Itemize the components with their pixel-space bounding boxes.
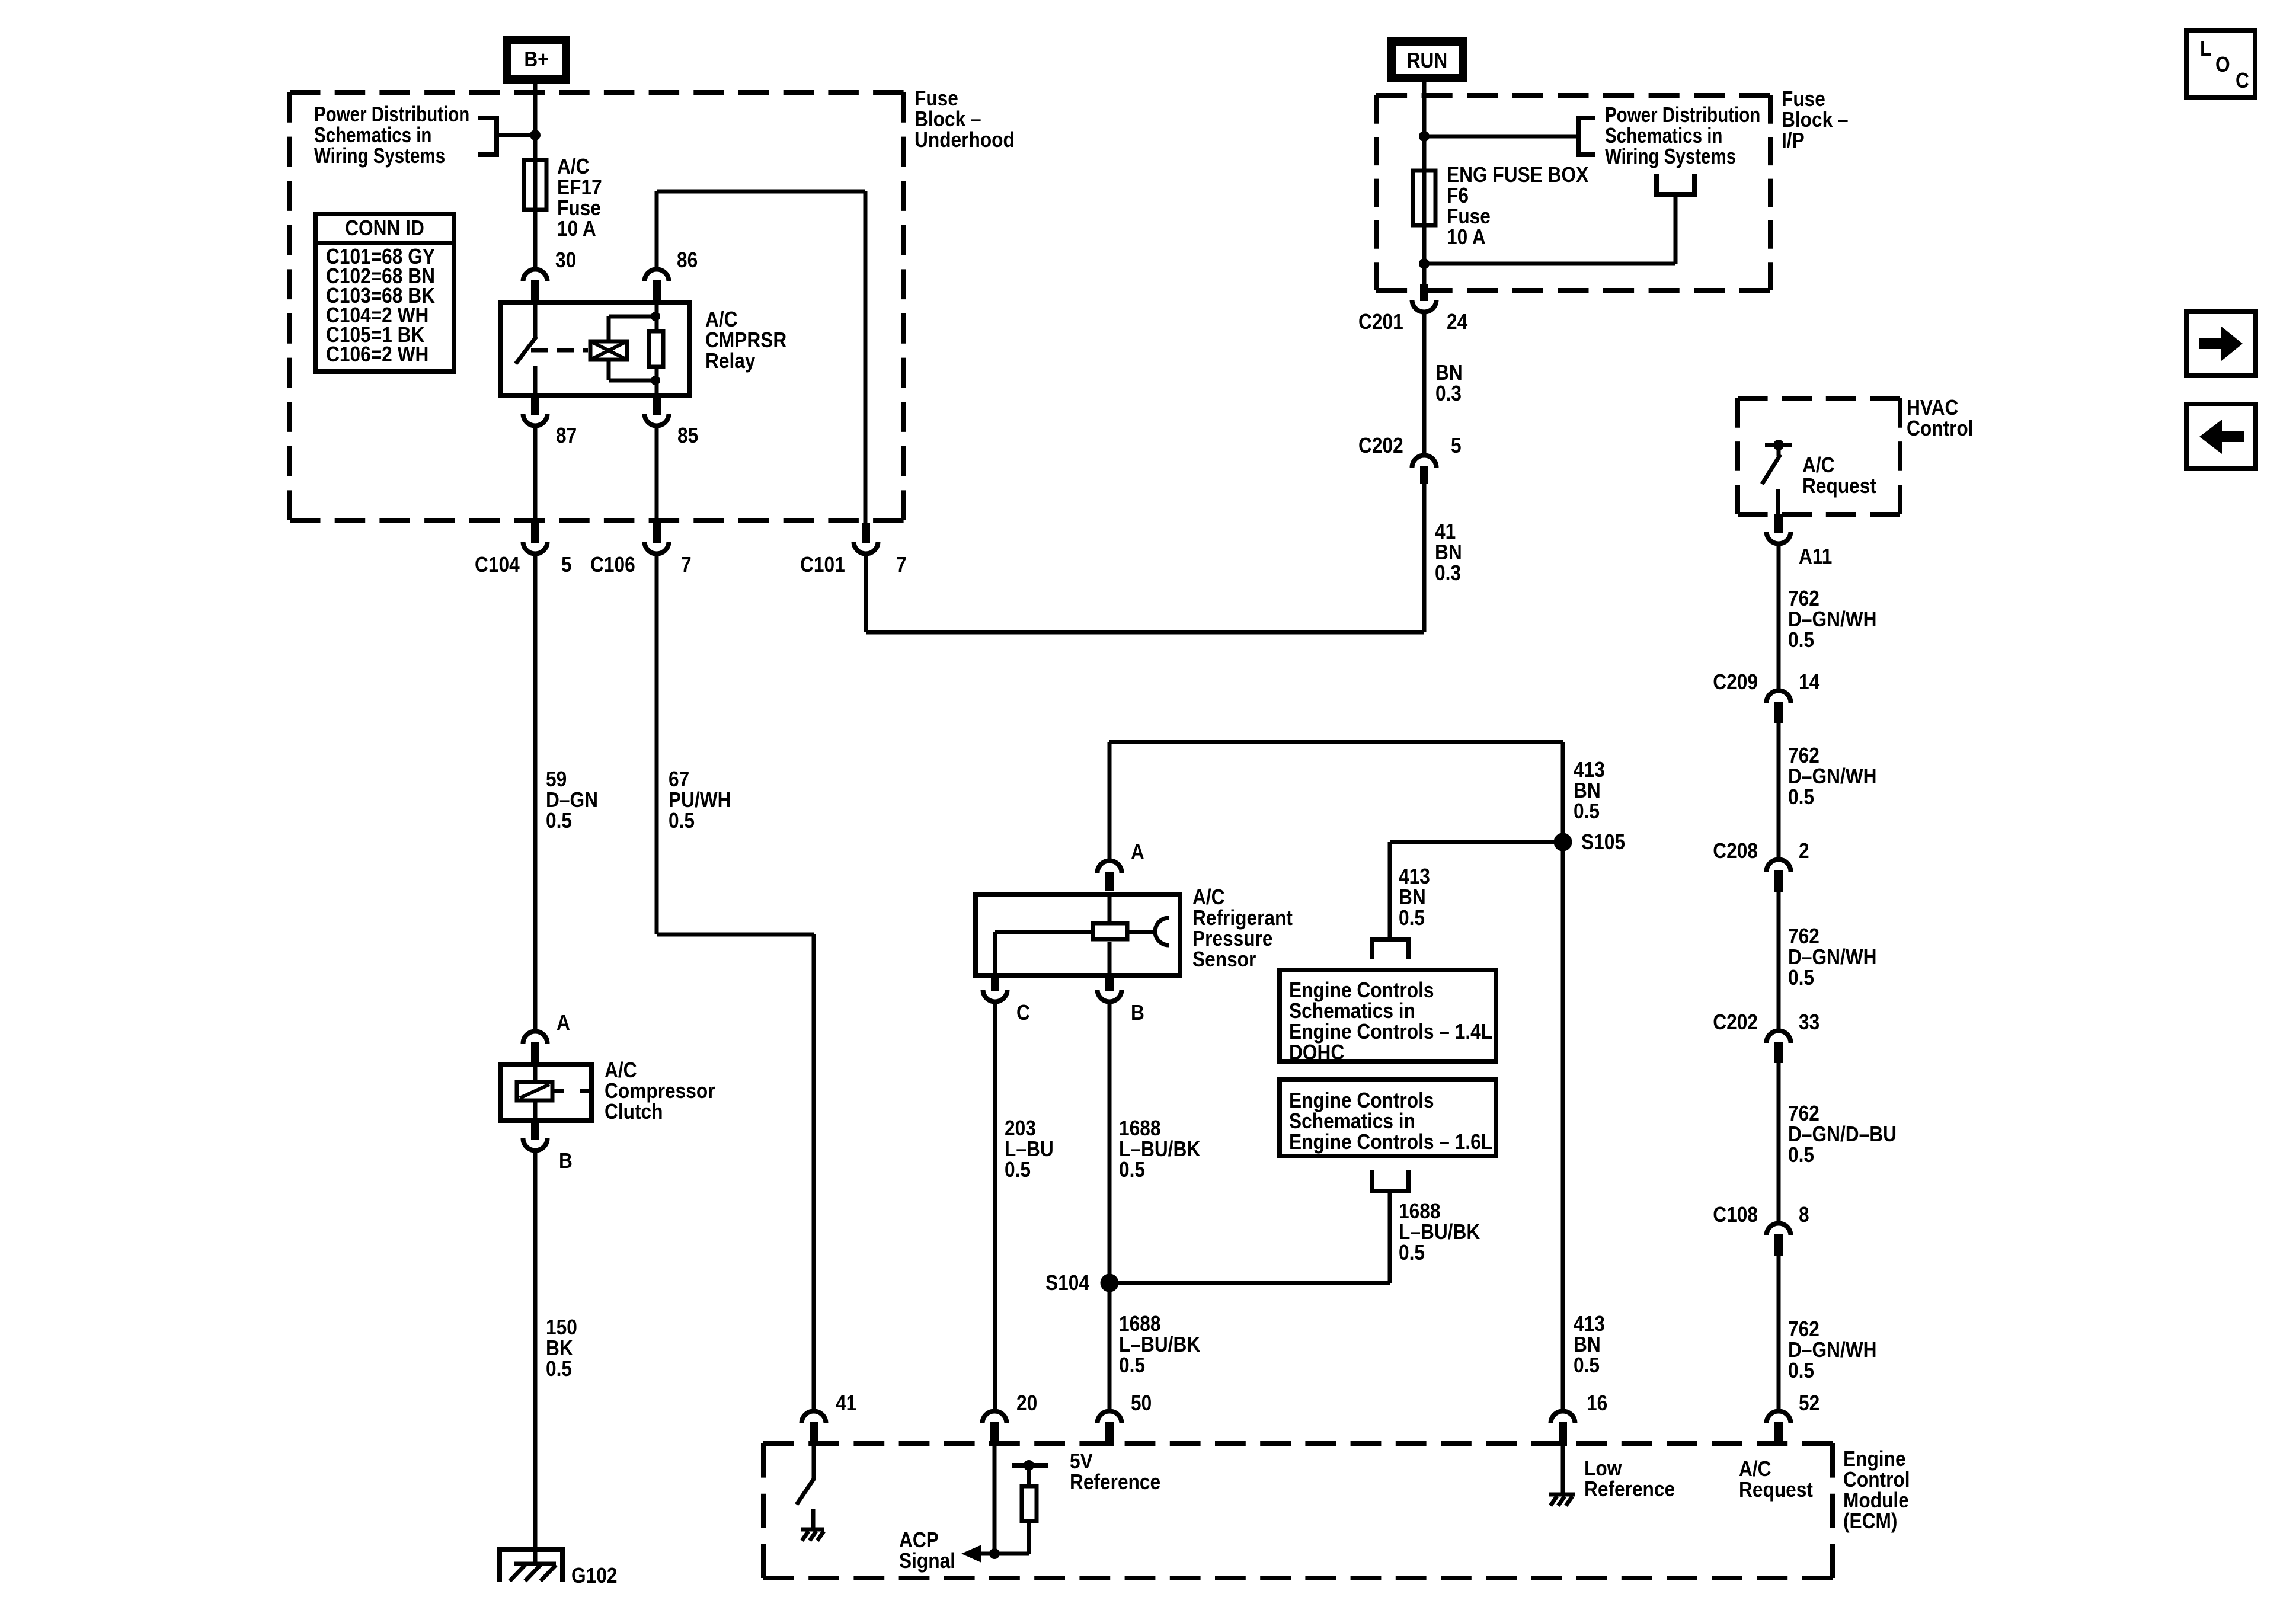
- connector C209 pin 14: [1767, 691, 1791, 724]
- label A/C Request (HVAC): [1802, 453, 1876, 498]
- label C104 5: [475, 553, 572, 577]
- value label 1688 L-BU/BK 0.5 (lower): [1119, 1312, 1201, 1377]
- svg-text:I/P: I/P: [1782, 129, 1805, 152]
- label Power Distribution Schematics in Wiring Systems (left): [314, 102, 469, 167]
- svg-text:20: 20: [1016, 1391, 1037, 1415]
- svg-text:85: 85: [677, 424, 698, 447]
- connector ECM pin 16: [1551, 1411, 1575, 1446]
- splice S105: [1554, 833, 1572, 852]
- svg-text:C208: C208: [1713, 839, 1758, 863]
- svg-text:0.5: 0.5: [546, 1357, 572, 1381]
- node coil top junction: [651, 312, 660, 321]
- connector C108 pin 8: [1767, 1224, 1791, 1256]
- svg-text:41: 41: [836, 1391, 856, 1415]
- label Fuse Block - Underhood: [914, 87, 1015, 152]
- svg-text:C106=2 WH: C106=2 WH: [326, 343, 428, 366]
- ECM pull-up resistor: [994, 1465, 1037, 1554]
- ground G102: [500, 1550, 562, 1582]
- svg-text:2: 2: [1799, 839, 1809, 863]
- box Engine Controls Schematics 1.4L DOHC: [1280, 970, 1496, 1064]
- connector C104 pin 5: [523, 523, 548, 554]
- label C201 24: [1358, 310, 1467, 334]
- wire 1688 L-BU/BK sensor B to ECM pin 50: [1108, 1004, 1112, 1410]
- svg-text:14: 14: [1799, 670, 1819, 694]
- wire pin 87 to C104: [533, 428, 538, 523]
- svg-text:0.5: 0.5: [1788, 966, 1814, 990]
- connector sensor pin B: [1098, 974, 1122, 1001]
- label A/C CMPRSR Relay: [705, 308, 786, 373]
- relay coil symbol: [590, 341, 627, 360]
- connector pin 85: [645, 395, 669, 425]
- svg-text:5: 5: [561, 553, 572, 577]
- svg-text:C101: C101: [800, 553, 845, 577]
- svg-text:0.5: 0.5: [1788, 1143, 1814, 1167]
- node junction on B+ wire: [530, 130, 541, 140]
- svg-text:L: L: [2200, 37, 2211, 60]
- svg-text:G102: G102: [571, 1564, 617, 1587]
- wire pin 85 to C106: [655, 428, 659, 523]
- wire RUN to F6 fuse: [1422, 82, 1427, 286]
- svg-text:CONN ID: CONN ID: [345, 216, 424, 240]
- connector ECM pin 50: [1098, 1411, 1122, 1446]
- node coil bottom junction: [651, 376, 660, 385]
- svg-text:A: A: [557, 1011, 570, 1035]
- ECM internal switch at pin 41: [797, 1446, 814, 1528]
- label ENG FUSE BOX F6 Fuse 10 A: [1447, 163, 1589, 249]
- svg-text:S104: S104: [1045, 1271, 1089, 1295]
- wire BN 0.3: [1422, 314, 1427, 453]
- label Engine Control Module (ECM): [1843, 1447, 1910, 1533]
- wire 762 D-GN/WH C108 to ECM pin 52: [1777, 1256, 1781, 1410]
- bracket from Engine Controls 1.6L box: [1372, 1170, 1408, 1191]
- connector pin 30: [523, 269, 548, 300]
- switch A/C Request: [1762, 440, 1792, 514]
- wire 762 D-GN/WH A11 to C209: [1777, 546, 1781, 689]
- value label 150 BK 0.5: [546, 1315, 577, 1381]
- label C202 5: [1358, 434, 1462, 457]
- wire 150 BK to G102: [533, 1153, 538, 1564]
- connector sensor pin A: [1098, 860, 1122, 891]
- svg-text:5: 5: [1451, 434, 1462, 457]
- svg-text:C201: C201: [1358, 310, 1403, 334]
- bracket Power Distribution reference (right): [1578, 118, 1595, 155]
- svg-text:Relay: Relay: [705, 349, 756, 373]
- value label 59 D-GN 0.5: [546, 767, 598, 833]
- wire to Power Distribution bracket (right): [1424, 135, 1576, 139]
- label C106 7: [590, 553, 692, 577]
- svg-text:7: 7: [896, 553, 907, 577]
- wire through relay resistor: [655, 303, 659, 396]
- wire bracket to fuse output: [1424, 194, 1675, 264]
- svg-text:8: 8: [1799, 1203, 1809, 1227]
- svg-text:0.5: 0.5: [546, 809, 572, 833]
- svg-text:Wiring Systems: Wiring Systems: [314, 143, 445, 167]
- bracket to Engine Controls 1.4L box: [1372, 939, 1408, 959]
- bracket under Power Distribution (right): [1657, 174, 1694, 194]
- dashed box Fuse Block - Underhood: [290, 92, 904, 520]
- connector C101 pin 7: [854, 523, 878, 554]
- svg-text:0.5: 0.5: [1788, 785, 1814, 809]
- wire 59 D-GN to compressor clutch A: [533, 556, 538, 1029]
- svg-text:Engine Controls – 1.6L: Engine Controls – 1.6L: [1289, 1130, 1492, 1154]
- wire sensor A to S105 top run: [1109, 742, 1563, 1410]
- wire 762 D-GN/D-BU C202 to C108: [1777, 1063, 1781, 1221]
- clutch coil: [517, 1064, 589, 1121]
- svg-text:(ECM): (ECM): [1843, 1509, 1897, 1533]
- svg-text:B+: B+: [524, 47, 548, 71]
- svg-text:C: C: [1016, 1001, 1030, 1025]
- value label 67 PU/WH 0.5: [669, 767, 731, 833]
- svg-text:30: 30: [555, 248, 576, 272]
- connector C202 pin 33: [1767, 1030, 1791, 1063]
- value label 41 BN 0.3: [1435, 520, 1462, 585]
- value label 203 L-BU 0.5: [1005, 1116, 1054, 1182]
- wire C101 to RUN feed horizontal: [866, 483, 1424, 632]
- svg-text:0.5: 0.5: [669, 809, 695, 833]
- svg-text:52: 52: [1799, 1391, 1819, 1415]
- 5V reference bus: [1012, 1463, 1048, 1468]
- value label 413 BN 0.5 (lower): [1574, 1312, 1605, 1377]
- node 5V junction: [1024, 1460, 1034, 1471]
- power symbol B+: [507, 40, 566, 79]
- svg-text:Wiring Systems: Wiring Systems: [1605, 144, 1736, 168]
- label HVAC Control: [1907, 396, 1974, 440]
- svg-text:0.5: 0.5: [1119, 1353, 1145, 1377]
- node junction RUN wire: [1419, 131, 1430, 142]
- label Low Reference: [1584, 1457, 1675, 1501]
- fuse EF17: [524, 160, 546, 210]
- label C202 33: [1713, 1010, 1819, 1034]
- wire coil bottom to resistor branch: [609, 360, 655, 380]
- connector C202 pin 5: [1412, 456, 1437, 485]
- connector clutch pin B: [523, 1123, 548, 1150]
- dashed box HVAC Control: [1738, 398, 1900, 514]
- svg-text:50: 50: [1131, 1391, 1152, 1415]
- svg-text:86: 86: [677, 248, 698, 272]
- CONN ID table: [315, 214, 454, 372]
- label C208 2: [1713, 839, 1809, 863]
- svg-text:Reference: Reference: [1070, 1470, 1160, 1494]
- ground internal (pin 41): [801, 1529, 824, 1541]
- svg-text:Request: Request: [1739, 1478, 1813, 1502]
- svg-text:24: 24: [1447, 310, 1467, 334]
- nav box arrow left: [2186, 404, 2256, 469]
- svg-text:O: O: [2215, 53, 2230, 76]
- svg-text:0.5: 0.5: [1574, 799, 1600, 823]
- label 5V Reference: [1070, 1449, 1160, 1494]
- value label 762 D-GN/WH 0.5 (2): [1788, 744, 1877, 809]
- svg-text:0.3: 0.3: [1435, 561, 1461, 585]
- svg-text:C108: C108: [1713, 1203, 1758, 1227]
- fuse F6: [1413, 171, 1435, 225]
- svg-text:C106: C106: [590, 553, 635, 577]
- svg-text:Underhood: Underhood: [914, 128, 1015, 152]
- legend box LOC: [2186, 31, 2255, 98]
- svg-text:16: 16: [1587, 1391, 1607, 1415]
- arrow ACP Signal: [961, 1545, 994, 1563]
- A/C Refrigerant Pressure Sensor box: [976, 894, 1180, 975]
- wire coil top to resistor branch: [609, 316, 655, 341]
- connector sensor pin C: [983, 974, 1007, 1001]
- label C108 8: [1713, 1203, 1809, 1227]
- label Power Distribution Schematics in Wiring Systems (right): [1605, 103, 1760, 168]
- wire 203 L-BU to ECM pin 20: [993, 1004, 997, 1410]
- svg-text:0.5: 0.5: [1119, 1158, 1145, 1182]
- svg-text:Sensor: Sensor: [1192, 948, 1256, 971]
- svg-text:Reference: Reference: [1584, 1477, 1675, 1501]
- svg-text:A11: A11: [1799, 545, 1832, 568]
- svg-text:DOHC: DOHC: [1289, 1041, 1344, 1064]
- splice S104: [1101, 1274, 1119, 1292]
- value label 762 D-GN/D-BU 0.5: [1788, 1102, 1897, 1167]
- value label 1688 L-BU/BK 0.5 (branch): [1399, 1199, 1480, 1265]
- label A/C Request (ECM): [1739, 1457, 1813, 1502]
- wire S105 to engine controls bracket: [1390, 842, 1563, 941]
- svg-text:0.5: 0.5: [1005, 1158, 1031, 1182]
- power symbol RUN: [1392, 41, 1463, 78]
- value label 762 D-GN/WH 0.5 (1): [1788, 587, 1877, 652]
- svg-text:S105: S105: [1581, 830, 1625, 854]
- node junction below F6: [1419, 258, 1430, 269]
- connector ECM pin 20: [983, 1411, 1007, 1446]
- svg-text:0.5: 0.5: [1574, 1353, 1600, 1377]
- nav box arrow right: [2186, 312, 2256, 376]
- label C101 7: [800, 553, 907, 577]
- value label 762 D-GN/WH 0.5 (4): [1788, 1317, 1877, 1382]
- label ACP Signal: [899, 1528, 955, 1573]
- wire 67 PU/WH from C106 to ECM pin 41: [657, 556, 814, 1410]
- svg-text:Signal: Signal: [899, 1549, 955, 1573]
- svg-text:0.3: 0.3: [1435, 382, 1462, 405]
- svg-text:0.5: 0.5: [1788, 628, 1814, 652]
- wire ECM pin 16 to low reference ground: [1561, 1446, 1565, 1494]
- dashed box Fuse Block - I/P: [1376, 95, 1770, 290]
- connector A11: [1767, 514, 1791, 543]
- wire 762 D-GN/WH C209 to C208: [1777, 723, 1781, 857]
- ground internal (pin 16): [1549, 1494, 1575, 1506]
- relay actuator dashed link: [531, 348, 588, 353]
- connector C106 pin 7: [645, 523, 669, 554]
- wire relay pin 86 to C101: [657, 191, 865, 523]
- svg-text:C209: C209: [1713, 670, 1758, 694]
- relay K: A/C CMPRSR Relay box: [500, 303, 690, 396]
- svg-text:10 A: 10 A: [1447, 225, 1486, 249]
- wire ECM pin 20 to ACP node: [993, 1446, 997, 1554]
- connector clutch pin A: [523, 1031, 548, 1062]
- connector ECM pin 52: [1767, 1411, 1791, 1446]
- wire 762 D-GN/WH C208 to C202: [1777, 892, 1781, 1029]
- wire to Power Distribution bracket: [497, 133, 535, 137]
- connector pin 87: [523, 395, 548, 425]
- relay resistor: [649, 331, 663, 367]
- svg-text:C202: C202: [1358, 434, 1403, 457]
- value label 413 BN 0.5 (branch): [1399, 865, 1430, 930]
- value label BN 0.3: [1435, 361, 1463, 405]
- connector ECM pin 41: [802, 1411, 826, 1446]
- svg-text:C202: C202: [1713, 1010, 1758, 1034]
- svg-text:0.5: 0.5: [1399, 906, 1425, 930]
- node ACP junction: [989, 1548, 1000, 1559]
- wire B+ to fuse to relay pin 30: [533, 84, 538, 267]
- svg-text:Request: Request: [1802, 474, 1876, 498]
- svg-text:C104: C104: [475, 553, 520, 577]
- svg-text:0.5: 0.5: [1788, 1359, 1814, 1382]
- relay switch contact: [516, 303, 536, 396]
- value label 1688 L-BU/BK 0.5 (sensor B): [1119, 1116, 1201, 1182]
- svg-text:87: 87: [556, 424, 577, 447]
- label A/C EF17 Fuse 10 A: [557, 155, 602, 241]
- connector C201 pin 24: [1412, 284, 1437, 312]
- svg-text:A: A: [1131, 840, 1144, 864]
- svg-text:7: 7: [681, 553, 692, 577]
- label Fuse Block - I/P: [1782, 87, 1849, 152]
- wire 1688 L-BU/BK from bracket to S104: [1109, 1191, 1390, 1283]
- connector C208 pin 2: [1767, 860, 1791, 892]
- A/C Compressor Clutch box: [500, 1064, 591, 1121]
- svg-text:33: 33: [1799, 1010, 1819, 1034]
- label C209 14: [1713, 670, 1819, 694]
- value label 413 BN 0.5 (upper): [1574, 758, 1605, 823]
- svg-text:Clutch: Clutch: [605, 1100, 663, 1124]
- dashed box Engine Control Module ECM: [763, 1443, 1833, 1578]
- svg-text:RUN: RUN: [1407, 49, 1448, 72]
- bracket Power Distribution reference (left): [478, 118, 497, 155]
- value label 762 D-GN/WH 0.5 (3): [1788, 924, 1877, 990]
- svg-text:B: B: [1131, 1001, 1144, 1025]
- box Engine Controls Schematics 1.6L: [1280, 1080, 1496, 1156]
- connector pin 86: [645, 269, 669, 300]
- svg-text:B: B: [559, 1149, 573, 1173]
- label A/C Refrigerant Pressure Sensor: [1192, 885, 1293, 971]
- label A/C Compressor Clutch: [605, 1058, 715, 1124]
- sensor pressure port symbol: [1129, 918, 1169, 945]
- svg-text:Control: Control: [1907, 417, 1974, 440]
- svg-text:0.5: 0.5: [1399, 1241, 1425, 1265]
- sensor internal resistor and wiring: [995, 894, 1127, 975]
- svg-text:C: C: [2236, 69, 2249, 92]
- svg-text:10 A: 10 A: [557, 217, 596, 241]
